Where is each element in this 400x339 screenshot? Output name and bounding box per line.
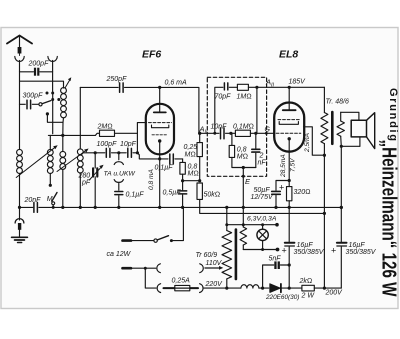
tube EF6: [142, 49, 174, 159]
node bus: Tr60 primary: [225, 206, 228, 209]
wire EF6 anode line: [125, 87, 199, 133]
wire coil L1 bottom loopback with tap: [47, 115, 63, 123]
fuse 0.25A: [164, 278, 199, 291]
node jack branch: [117, 151, 120, 154]
svg-text:0,5µF: 0,5µF: [163, 190, 182, 197]
node bus: coil L3: [61, 206, 64, 209]
capacitor 100pF: [97, 141, 118, 157]
svg-text:0,8: 0,8: [188, 164, 198, 171]
svg-text:II: II: [205, 130, 209, 136]
transformer Tr 48/6 secondary: [337, 112, 359, 146]
node trimmer top: [94, 151, 97, 154]
svg-text:5nF: 5nF: [269, 256, 282, 263]
mains switch: [107, 207, 184, 258]
svg-text:„Heinzelmann“ 126 W: „Heinzelmann“ 126 W: [378, 140, 400, 297]
wire grid cap line: [95, 152, 105, 154]
svg-text:6,3V,0,3A: 6,3V,0,3A: [247, 216, 277, 223]
node B+ rail bottom: [323, 287, 326, 290]
svg-text:0,25: 0,25: [184, 144, 198, 151]
rectifier 220E60(30): [265, 284, 302, 301]
node A2 grid junction: [198, 132, 201, 135]
svg-text:2MΩ: 2MΩ: [97, 124, 113, 131]
wire screen grid: [304, 127, 325, 155]
wire socket A2 down to band switch contacts: [52, 61, 54, 93]
svg-text:TA u.UKW: TA u.UKW: [104, 170, 136, 177]
svg-text:2 W: 2 W: [301, 293, 316, 300]
node bus: trimmer: [94, 206, 97, 209]
svg-text:280: 280: [78, 173, 91, 180]
svg-text:200pF: 200pF: [28, 61, 50, 68]
capacitor 10nF: [211, 124, 236, 139]
svg-text:0,8: 0,8: [237, 147, 247, 154]
heater bottom wire: [243, 248, 279, 252]
capacitor 16uF no.2: [331, 242, 377, 288]
transformer Tr 48/6 primary: [321, 87, 349, 213]
node bus: 320 Ohm / rail: [288, 206, 291, 209]
node bus: coil L4: [79, 206, 82, 209]
mains lead: [123, 267, 156, 270]
wire grid leak line: [137, 153, 168, 159]
node rectifier output: [288, 287, 291, 290]
svg-text:70pF: 70pF: [215, 94, 232, 101]
node bus right end: [340, 206, 343, 209]
wire anode supply 185V: [248, 86, 324, 88]
node 2nF top: [254, 132, 257, 135]
capacitor 10pF: [120, 141, 137, 157]
antenna socket A2: [48, 57, 57, 62]
svg-text:Grundig: Grundig: [387, 88, 399, 143]
resistor 50kOhm: [197, 183, 325, 213]
node cathode junction: [158, 157, 161, 160]
choke mains filter: [241, 285, 269, 288]
arrow through coils L3 L4: [57, 149, 89, 172]
coil L5 longwave: [17, 104, 23, 207]
node bus: M switch: [52, 206, 55, 209]
node speaker return: [340, 145, 343, 148]
resistor 0.25MOhm: [184, 133, 203, 180]
node screen to B+: [323, 154, 326, 157]
wire link to coil L3: [62, 122, 64, 135]
wire: [112, 152, 127, 154]
node contact 3: [51, 98, 54, 101]
switch M wave change: [47, 193, 57, 208]
node contact 1: [46, 92, 49, 95]
svg-text:pF: pF: [81, 180, 91, 187]
coil L1 antenna coupling: [61, 88, 67, 118]
node 50k top: [198, 179, 201, 182]
svg-text:7,5V: 7,5V: [290, 158, 297, 172]
node cathode RC: [288, 179, 291, 182]
svg-text:220E60(30): 220E60(30): [265, 294, 299, 301]
dial lamp 6.3V: [257, 225, 268, 250]
label node A2 upper: [265, 78, 275, 89]
resistor 0.1MOhm: [233, 124, 274, 137]
transformer Tr 60/9 core: [235, 230, 238, 280]
coil L2 tuning primary: [47, 135, 53, 184]
svg-text:II: II: [271, 83, 275, 89]
svg-text:0,1µF: 0,1µF: [126, 192, 145, 199]
svg-text:Tr 60/9: Tr 60/9: [196, 252, 218, 259]
svg-text:250pF: 250pF: [106, 76, 128, 83]
node coil L3 top: [61, 134, 64, 137]
wire contacts to coil L2: [52, 93, 54, 134]
coil L4 reaction: [77, 87, 118, 207]
svg-text:50µF: 50µF: [254, 187, 271, 194]
wire box left riser: [215, 87, 223, 133]
svg-text:110V: 110V: [206, 260, 223, 267]
svg-text:16µF: 16µF: [349, 242, 366, 249]
socket 110V pair: [157, 264, 203, 273]
loudspeaker: [351, 113, 375, 149]
svg-text:EL8: EL8: [279, 49, 298, 61]
resistor 2kOhm 2W: [299, 278, 342, 300]
node M contact: [49, 184, 52, 187]
svg-text:220V: 220V: [205, 281, 224, 288]
wire 220V to transformer: [204, 287, 241, 289]
node bus: 50uF: [274, 206, 277, 209]
svg-text:320Ω: 320Ω: [294, 189, 311, 196]
resistor 2MOhm: [95, 124, 137, 137]
wire 220V branch: [145, 268, 156, 288]
node feedback riser: [255, 86, 258, 134]
node 5nF tap: [288, 263, 291, 266]
wire top of coil unit: [20, 81, 64, 88]
svg-text:10pF: 10pF: [120, 141, 137, 148]
resistor 1MOhm: [237, 84, 252, 100]
svg-text:Tr. 48/6: Tr. 48/6: [326, 99, 349, 106]
transformer Tr 60/9 primary: [196, 225, 232, 288]
wire left down to 300pF line: [19, 72, 21, 105]
wire antenna to 200pF: [20, 61, 34, 72]
svg-text:16µF: 16µF: [297, 242, 314, 249]
svg-text:MΩ: MΩ: [185, 152, 196, 159]
node 5nF left: [261, 287, 264, 290]
svg-text:2,5mA: 2,5mA: [304, 132, 311, 153]
resistor 0.8MOhm (grid leak): [180, 159, 199, 181]
node contact 4: [57, 98, 60, 101]
capacitor 5nF: [263, 256, 290, 289]
node box left: [213, 132, 216, 135]
transformer Tr 60/9 heater winding: [240, 227, 247, 250]
node 0.8M top: [229, 132, 232, 135]
wire speaker return joins rail: [341, 145, 360, 147]
svg-text:300pF: 300pF: [23, 93, 44, 100]
transformer Tr 48/6 core: [331, 112, 334, 144]
node anode: [158, 86, 161, 89]
node bus: jack 0.1uF: [117, 206, 120, 209]
svg-text:12/75V: 12/75V: [251, 194, 275, 201]
antenna socket A1: [15, 57, 24, 62]
coil L3: [60, 135, 66, 207]
capacitor 16uF no.1: [282, 242, 325, 288]
svg-text:28,5mA: 28,5mA: [280, 154, 287, 178]
svg-text:2kΩ: 2kΩ: [299, 278, 313, 285]
heater supply top wire 6.3V: [225, 207, 279, 226]
wire B+ rail down (16uF no.1): [288, 207, 290, 241]
svg-text:+: +: [279, 183, 284, 193]
svg-text:0,1µF: 0,1µF: [155, 164, 174, 171]
svg-text:0,8 mA: 0,8 mA: [148, 169, 155, 190]
svg-text:G: G: [265, 127, 271, 134]
tube EL8: [274, 49, 304, 181]
resistor 320Ohm cathode: [287, 181, 311, 208]
node bus: E line: [242, 206, 245, 209]
arrow through coils L2 L3 (tuning): [16, 145, 58, 177]
svg-text:+: +: [331, 246, 336, 256]
ground (earth plug): [12, 207, 28, 242]
svg-text:+: +: [282, 246, 287, 256]
wire 200pF to right socket line: [40, 71, 53, 73]
node grid junction: [136, 151, 139, 154]
svg-text:200V: 200V: [325, 290, 344, 297]
svg-text:100pF: 100pF: [97, 141, 118, 148]
wire E to bus: [242, 168, 251, 208]
wire coil L4 tap to trimmer line: [83, 152, 95, 154]
wire EF6 grid lead: [137, 123, 146, 153]
node bus: 0.5uF / mains switch: [181, 206, 184, 209]
svg-text:0,6 mA: 0,6 mA: [165, 80, 188, 87]
node 220V tap: [225, 287, 228, 290]
node contact 2: [51, 92, 54, 95]
wire A2 to 10nF: [200, 132, 219, 134]
svg-text:2: 2: [259, 153, 264, 160]
node grid-leak bottom: [181, 179, 184, 182]
svg-text:0,1MΩ: 0,1MΩ: [233, 124, 254, 131]
svg-text:nF: nF: [258, 160, 267, 167]
svg-text:10nF: 10nF: [211, 124, 228, 131]
chassis bus: [20, 206, 342, 208]
wire cathode to bus: [159, 159, 161, 208]
coupling unit dashed box: [207, 77, 266, 176]
svg-text:185V: 185V: [289, 79, 307, 86]
label node A2 lower: [199, 125, 209, 136]
wire to EF6 grid: [133, 152, 137, 154]
wire to 50k branch: [183, 180, 200, 182]
svg-text:MΩ: MΩ: [237, 154, 248, 161]
wire B+ rail to rectifier: [323, 213, 325, 288]
node G: [265, 127, 271, 135]
node E branch: [242, 166, 245, 169]
svg-text:ca 12W: ca 12W: [107, 251, 132, 258]
capacitor 20nF (in bus): [24, 197, 42, 212]
node bus: EF6 cathode: [158, 206, 161, 209]
node primary-screen: [323, 212, 326, 215]
resistor 0.8MOhm (inside box): [229, 133, 256, 167]
capacitor 50uF electrolytic: [251, 181, 290, 208]
wire grid line left end: [48, 134, 95, 136]
svg-text:0,25A: 0,25A: [172, 278, 191, 285]
svg-text:20nF: 20nF: [24, 197, 42, 204]
variable capacitor 280pF (tuning): [78, 153, 104, 208]
capacitor 300pF: [23, 93, 44, 109]
arrow through coil L1: [65, 77, 71, 88]
wire heater secondary riser: [242, 207, 244, 227]
capacitor 2nF: [252, 133, 267, 167]
capacitor 0.1uF (grid): [155, 154, 183, 171]
node tap: [46, 112, 49, 115]
capacitor 70pF: [215, 83, 238, 101]
svg-text:EF6: EF6: [142, 49, 161, 61]
wire right rail: [340, 146, 342, 241]
svg-text:1MΩ: 1MΩ: [237, 94, 252, 101]
svg-text:350/385V: 350/385V: [346, 249, 377, 256]
switch antenna selector: [39, 101, 51, 106]
wire 300pF leads: [20, 103, 39, 105]
capacitor 200pF: [28, 61, 50, 76]
svg-text:350/385V: 350/385V: [294, 249, 325, 256]
svg-text:50kΩ: 50kΩ: [204, 192, 221, 199]
node EL8 anode: [288, 86, 291, 89]
tap 110V: [205, 260, 223, 270]
socket 220V pair: [157, 284, 203, 293]
antenna: [7, 36, 32, 56]
jack TA u UKW: [104, 153, 136, 190]
capacitor 0.5uF: [163, 181, 187, 208]
capacitor 0.1uF (jack): [115, 192, 144, 208]
capacitor 250pF: [106, 76, 128, 92]
svg-text:MΩ: MΩ: [188, 171, 199, 178]
